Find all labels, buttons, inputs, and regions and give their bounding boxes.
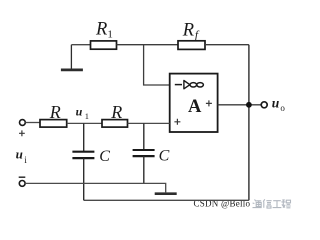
label minus bar (19, 176, 26, 178)
resistor Rf (178, 41, 205, 50)
wire op-amp output (218, 104, 261, 106)
svg-text:C: C (159, 148, 170, 165)
wire output column (248, 45, 250, 201)
wire bottom feedback (84, 199, 249, 201)
svg-text:1: 1 (85, 111, 89, 121)
junction dot output node (246, 102, 252, 108)
ground GND1 top-left (61, 45, 83, 70)
terminal input minus (19, 181, 25, 187)
op-amp triangle (184, 81, 190, 89)
wire bottom rail (25, 183, 166, 192)
ground GND2 (155, 192, 177, 195)
wire R2 to op-amp (128, 122, 170, 124)
wire inverting input drop (144, 45, 170, 85)
resistor R second (102, 120, 128, 128)
op-amp U1 box (170, 74, 218, 132)
wire Rf to output column (205, 44, 249, 46)
op-amp noninverting plus (174, 119, 180, 125)
svg-text:C: C (99, 148, 110, 165)
watermark char cheng (281, 200, 290, 208)
capacitor C1 (72, 123, 94, 200)
wire input to R (25, 122, 40, 124)
wire R to R2 (67, 122, 102, 124)
watermark char xin (263, 199, 271, 208)
watermark char gong (273, 201, 282, 208)
resistor R first (40, 120, 67, 128)
op-amp minus sign (175, 84, 182, 86)
svg-text:u: u (76, 104, 83, 118)
watermark char tong (253, 200, 262, 208)
wire R1 to Rf (117, 44, 179, 46)
svg-text:R: R (110, 102, 122, 122)
wire GND1 to R1 (71, 44, 90, 46)
svg-text:A: A (188, 97, 202, 117)
resistor R1 (91, 41, 117, 49)
svg-text:o: o (280, 103, 285, 113)
label plus input (19, 130, 25, 136)
svg-text:R: R (49, 102, 61, 122)
terminal uo (261, 102, 267, 108)
terminal input plus (20, 120, 26, 126)
capacitor C2 (133, 123, 155, 183)
svg-text:u: u (272, 95, 280, 110)
watermark CSDN (194, 199, 291, 209)
svg-text:u: u (16, 146, 23, 161)
op-amp output plus (206, 100, 212, 106)
op-amp infinity (190, 83, 203, 87)
